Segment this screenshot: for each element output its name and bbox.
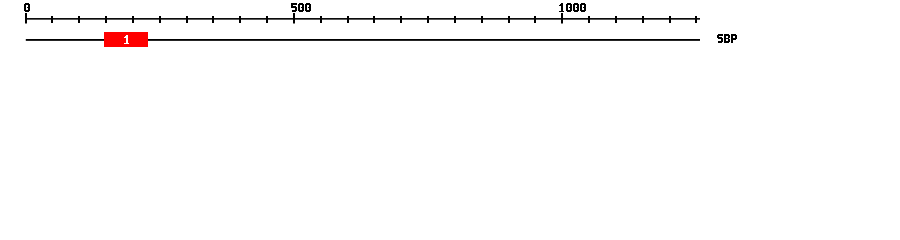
major tick 1000 [561,13,563,24]
track label SBP [717,34,737,43]
ruler ticks [25,13,697,24]
genome feature track panel [0,0,900,58]
major tick 0 [25,13,27,24]
minor ticks [51,16,53,23]
feature box (red) [104,32,148,47]
ruler label 500 [291,3,311,12]
ruler label 1000 [559,3,586,12]
ruler main line [25,18,700,20]
ruler label 0 [24,3,30,12]
feature track line [26,39,700,41]
background [0,0,900,58]
major tick 500 [293,13,295,24]
feature box label 1 [124,35,129,44]
